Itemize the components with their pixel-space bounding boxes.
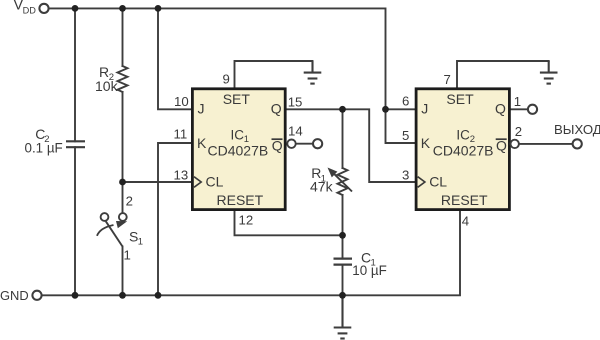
node VDD-J1 (155, 5, 162, 12)
potentiometer R1 arrow (328, 168, 353, 192)
node VDD-R2 (119, 5, 126, 12)
capacitor C1 (334, 259, 353, 265)
svg-text:GND: GND (0, 288, 29, 303)
wire S1 upper lead (122, 182, 124, 212)
wire SET1 to ground (235, 61, 313, 89)
capacitor C2 (66, 141, 85, 147)
svg-text:2: 2 (126, 194, 133, 209)
wire K1 to GND (158, 143, 192, 295)
terminal VDD (39, 4, 48, 13)
resistor R1 potentiometer (338, 168, 348, 195)
svg-text:3: 3 (402, 168, 409, 183)
switch S1 label (129, 229, 143, 248)
svg-text:DD: DD (23, 5, 37, 15)
svg-text:1: 1 (124, 248, 131, 263)
node Q1-R1 (339, 106, 346, 113)
wire C2 upper lead (74, 8, 76, 141)
node VDD-C2 (72, 5, 79, 12)
svg-text:ВЫХОД: ВЫХОД (554, 122, 600, 137)
switch S1 (97, 213, 127, 246)
wire R2 lower lead (122, 92, 124, 182)
svg-text:J: J (421, 101, 428, 117)
node GND-C1 (339, 292, 346, 299)
svg-text:IC: IC (456, 127, 470, 142)
resistor R1 value label (310, 165, 334, 195)
svg-text:J: J (198, 101, 205, 117)
wire C2 lower lead (74, 147, 76, 295)
svg-text:SET: SET (223, 91, 251, 107)
svg-text:47k: 47k (310, 179, 334, 195)
wire Q1-bar stub (296, 143, 313, 145)
ground (SET2) (540, 61, 558, 84)
svg-text:RESET: RESET (217, 192, 264, 208)
svg-text:9: 9 (223, 71, 230, 86)
svg-text:IC: IC (231, 127, 245, 142)
node VDD label (14, 0, 37, 15)
svg-text:13: 13 (174, 167, 189, 182)
resistor R2 (118, 66, 128, 92)
svg-text:10: 10 (174, 94, 189, 109)
wire SET2 to ground (457, 61, 549, 89)
capacitor C1 value label (352, 250, 387, 279)
inversion bubble Q2-bar (511, 140, 519, 148)
svg-text:4: 4 (462, 214, 469, 229)
svg-text:CD4027B: CD4027B (433, 143, 494, 159)
flip-flop IC1 body (192, 89, 285, 210)
wire S1 lower lead (122, 247, 124, 296)
node CL1-R2-S1 (119, 179, 126, 186)
wire RESET1 (235, 210, 343, 236)
node GND-S1 (119, 292, 126, 299)
svg-text:CD4027B: CD4027B (208, 143, 269, 159)
capacitor C2 value label (25, 126, 63, 155)
node GND-C2 (72, 292, 79, 299)
svg-text:1: 1 (138, 237, 143, 248)
inversion bubble Q1-bar (287, 140, 295, 148)
svg-text:6: 6 (402, 94, 409, 109)
svg-text:15: 15 (288, 95, 303, 110)
terminal Q2 pin1 (528, 105, 537, 114)
svg-text:10 µF: 10 µF (352, 263, 387, 278)
ground (C1) (334, 295, 352, 338)
wire Q1 to CL2 (286, 109, 417, 182)
wire C1 lower lead (342, 265, 344, 296)
svg-text:0.1 µF: 0.1 µF (25, 140, 63, 155)
wire Q2 stub (511, 108, 528, 110)
wire J1 to VDD (158, 8, 192, 109)
node VDD-J2-K2 (382, 106, 389, 113)
svg-text:CL: CL (206, 173, 224, 189)
svg-text:11: 11 (174, 126, 188, 141)
svg-text:CL: CL (429, 173, 447, 189)
resistor R2 value label (95, 64, 119, 94)
wire VDD rail (49, 8, 386, 109)
svg-text:K: K (421, 135, 431, 151)
svg-text:Q: Q (495, 100, 506, 116)
wire VDD to J2 (386, 108, 417, 110)
svg-text:K: K (197, 135, 207, 151)
svg-text:5: 5 (402, 128, 409, 143)
wire GND rail to RESET2 (42, 210, 460, 296)
terminal GND (32, 291, 41, 300)
wire R1 upper lead (342, 109, 344, 168)
node GND-K1 (155, 292, 162, 299)
clock triangle CL1 (194, 177, 201, 188)
flip-flop IC2 body (416, 89, 509, 210)
svg-text:SET: SET (446, 91, 474, 107)
svg-text:RESET: RESET (441, 192, 488, 208)
svg-text:1: 1 (514, 94, 521, 109)
clock triangle CL2 (418, 177, 425, 188)
svg-text:2: 2 (515, 124, 522, 139)
wire R1 lower lead (342, 195, 344, 259)
wire Q2-bar stub (519, 143, 573, 145)
svg-text:12: 12 (239, 213, 254, 228)
svg-text:7: 7 (444, 72, 451, 87)
svg-text:14: 14 (288, 124, 303, 139)
svg-text:Q: Q (271, 100, 282, 116)
svg-text:10k: 10k (95, 78, 119, 94)
node RESET1-R1-C1 (339, 232, 346, 239)
ground (SET1) (304, 61, 322, 84)
terminal Q2-bar output (573, 139, 582, 148)
terminal Q1-bar pin14 (313, 139, 322, 148)
wire R2 upper lead (122, 8, 124, 66)
wire VDD to K2 (386, 109, 417, 143)
wire CL1 (123, 181, 193, 183)
